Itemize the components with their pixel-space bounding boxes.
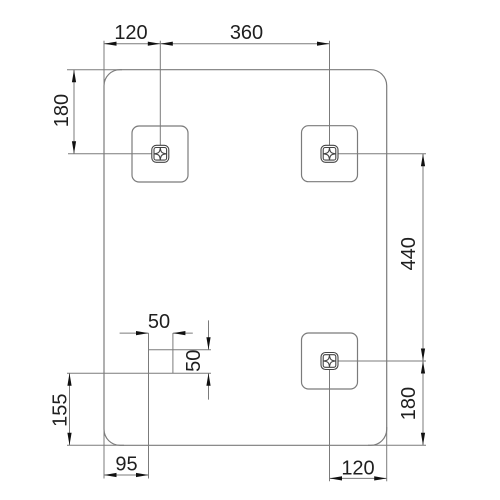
dimension 50 horizontal (120, 332, 149, 334)
svg-text:180: 180 (51, 94, 73, 127)
small square cutout 50x50 (148, 333, 150, 478)
dimension 180 left (73, 70, 75, 154)
hole pad TR (302, 126, 358, 182)
svg-text:155: 155 (50, 394, 72, 427)
extension line: plate bottom edge extended left (67, 444, 124, 446)
node hole BR center lines (330, 360, 427, 362)
svg-text:180: 180 (398, 387, 420, 420)
hole pad TL (132, 126, 188, 182)
svg-text:440: 440 (398, 237, 420, 270)
dimension 440 right (422, 154, 424, 361)
dimension 360 top (160, 43, 329, 45)
extension line: plate left edge extended up (103, 41, 105, 88)
svg-text:50: 50 (148, 311, 170, 333)
dimension 120 bottom (330, 477, 387, 479)
extension line: plate bottom edge extended right (368, 444, 426, 446)
dimension 180 bottom right (422, 361, 424, 445)
node hole TR center lines (329, 41, 331, 154)
node hole TL center lines (159, 41, 161, 154)
extension line: plate left edge extended down (103, 428, 105, 479)
dimension 155 left (69, 373, 71, 445)
extension line: plate right edge extended down (386, 427, 388, 481)
dimension 120 top (104, 43, 160, 45)
svg-text:360: 360 (230, 22, 263, 44)
dimension 50 vertical (208, 320, 210, 349)
plate outline (104, 70, 387, 446)
dimension 95 bottom left (104, 474, 149, 476)
svg-text:120: 120 (341, 457, 374, 479)
fastener TL (152, 145, 169, 162)
svg-text:95: 95 (115, 454, 137, 476)
svg-text:50: 50 (183, 350, 205, 372)
fastener BR (321, 353, 338, 370)
extension line: plate top edge extended left (67, 69, 122, 71)
fastener TR (321, 145, 338, 162)
svg-text:120: 120 (114, 22, 147, 44)
hole pad BR (302, 333, 358, 389)
